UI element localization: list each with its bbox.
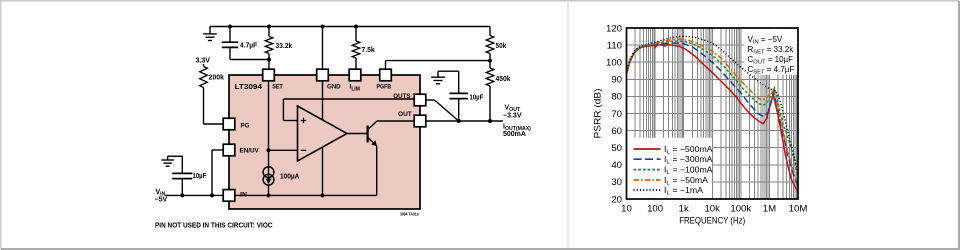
wire SET to inverting input and current source [267,81,298,167]
svg-text:33.2k: 33.2k [276,43,293,50]
resistor 7.5k (ILIM) [352,27,360,70]
curve IL=-500mA (red solid) [627,45,799,192]
curve IL=-100mA (green short dash) [627,41,799,176]
pin OUTS [414,94,426,106]
svg-text:40: 40 [611,160,622,171]
pin ILIM [349,69,361,81]
svg-text:PSRR (dB): PSRR (dB) [593,89,604,139]
panel divider [567,2,569,248]
svg-text:100: 100 [606,58,622,69]
svg-text:SET: SET [272,84,283,91]
plot frame [627,28,799,199]
svg-text:1k: 1k [679,204,689,215]
node: top rail / 7.5k junction [354,25,358,29]
node: 50k / 450k / PGFB junction [488,59,492,63]
chart gridlines [627,28,799,199]
pin SET [263,69,275,81]
svg-text:IN: IN [240,191,247,198]
svg-text:EN/UV: EN/UV [240,148,260,155]
capacitor COUT 10uF [438,71,468,121]
wire PGFB pin up and right [386,61,491,70]
svg-text:GND: GND [327,84,341,91]
wire into SET pin [268,60,270,70]
x axis tick labels [621,204,807,215]
svg-text:10M: 10M [789,204,808,215]
wire collector to OUT pin [377,120,414,122]
svg-text:LT3094: LT3094 [235,84,263,91]
svg-text:FREQUENCY (Hz): FREQUENCY (Hz) [679,216,745,227]
curve IL=-300mA (blue dashed) [627,43,799,186]
svg-text:500mA: 500mA [503,131,526,138]
svg-text:10k: 10k [704,204,720,215]
legend entries [634,145,714,197]
svg-text:100: 100 [647,204,663,215]
wire OUT to output node [426,120,503,122]
capacitor CIN 10uF [168,156,193,195]
wire GND pin down to internal rail [322,81,324,196]
svg-text:70: 70 [611,109,622,120]
IC LT3094 body [229,75,420,209]
pin PGFB [380,69,392,81]
ground (CIN) [161,156,174,166]
svg-text:−5V: −5V [155,197,168,204]
transistor pass NPN [368,121,377,146]
wire top supply rail [210,26,490,28]
svg-text:10: 10 [621,204,632,215]
svg-text:PGFB: PGFB [377,84,392,91]
node: VIN / EN-UV junction [210,193,214,197]
svg-text:100µA: 100µA [280,174,299,181]
svg-text:4.7µF: 4.7µF [240,43,258,50]
svg-text:1M: 1M [763,204,776,215]
svg-text:30: 30 [611,177,622,188]
node: top rail / CSET junction [228,25,232,29]
node: SET / RSET / CSET junction [267,58,271,62]
ground (COUT) [431,71,445,84]
node: top rail / GND wire junction [321,25,325,29]
svg-text:60: 60 [611,126,622,137]
wire op-amp output to transistor base [347,133,367,135]
pin EN/UV [223,144,235,156]
wire emitter down to internal rail [376,146,378,196]
svg-text:90: 90 [611,75,622,86]
svg-text:50: 50 [611,143,622,154]
ground (top-left, CSET return) [203,27,217,41]
curve IL=-50mA (orange dash-dot) [627,39,799,183]
pin PG [223,118,235,130]
resistor 450k [486,61,494,121]
wire EN/UV to VIN rail [212,150,223,195]
svg-text:OUT: OUT [398,111,412,118]
svg-text:100k: 100k [730,204,751,215]
node: top rail / RSET junction [267,25,271,29]
svg-text:PG: PG [241,123,250,130]
wire CSET bottom to SET [230,59,269,61]
svg-text:10µF: 10µF [193,173,207,180]
node: VIN / CIN junction [180,193,184,197]
svg-text:200k: 200k [209,75,225,82]
pin GND [317,69,329,81]
wire OUTS sense to non-inverting input [283,99,414,121]
annotation conditions [748,35,795,76]
svg-text:80: 80 [611,92,622,103]
svg-text:10µF: 10µF [470,95,484,102]
svg-text:50k: 50k [496,43,507,50]
wire GND pin to top rail [322,27,324,70]
resistor 50k [486,27,494,61]
capacitor CSET 4.7uF [222,27,238,60]
legend background [628,138,712,198]
svg-text:3.3V: 3.3V [196,58,211,65]
pin OUT [414,115,426,127]
annotation background [744,29,797,75]
svg-text:110: 110 [607,40,622,51]
svg-text:PIN NOT USED IN THIS CIRCUIT:: PIN NOT USED IN THIS CIRCUIT: VIOC [155,220,273,229]
node: COUT junction [457,119,461,123]
svg-text:−3.3V: −3.3V [503,113,522,120]
wire internal rail from IN pin [235,193,377,197]
y axis tick labels [606,23,622,205]
pin IN [223,190,235,202]
svg-text:7.5k: 7.5k [362,47,375,54]
svg-text:3094 TA01a: 3094 TA01a [400,212,419,217]
svg-text:120: 120 [606,23,622,34]
op-amp error amplifier [298,106,348,161]
wire OUTS kelvin sense diagonal [426,100,459,121]
current source 100uA [263,167,274,196]
resistor RSET 33.2k [265,27,273,60]
svg-text:450k: 450k [496,76,511,83]
node: 450k / output junction [488,119,492,123]
resistor 200k (PG pull-up) [200,64,224,124]
curve IL=-1mA (black dotted) [627,36,799,171]
wire VIN rail [165,194,223,196]
svg-text:OUTS: OUTS [393,93,411,100]
